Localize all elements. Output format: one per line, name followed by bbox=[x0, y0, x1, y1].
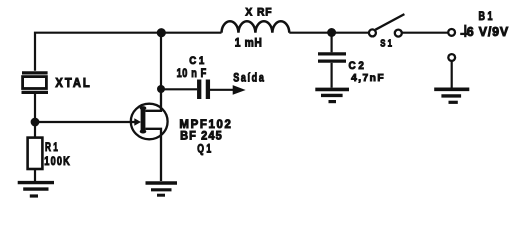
battery plus sign bbox=[460, 25, 469, 38]
wire drain feed from top wire down to C1 junction bbox=[160, 33, 162, 89]
ground below Q1 bbox=[146, 183, 178, 195]
label B1 bbox=[479, 11, 493, 23]
svg-text:10 n F: 10 n F bbox=[177, 66, 207, 80]
svg-text:C 2: C 2 bbox=[349, 60, 364, 72]
svg-text:6 V/9V: 6 V/9V bbox=[467, 25, 509, 39]
wire gate node to Q1 gate bbox=[35, 121, 131, 123]
wire switch to battery bbox=[402, 32, 447, 34]
label X RF bbox=[245, 6, 272, 18]
wire inductor to switch bbox=[289, 32, 369, 34]
svg-text:100K: 100K bbox=[44, 154, 71, 168]
wire crystal bottom to gate node bbox=[34, 94, 36, 122]
svg-text:XTAL: XTAL bbox=[55, 76, 91, 90]
capacitor C2 bbox=[318, 33, 346, 88]
crystal XTAL bbox=[22, 73, 49, 93]
label C1 bbox=[189, 55, 204, 67]
wire battery negative to ground bbox=[451, 62, 453, 88]
label R1 bbox=[45, 141, 58, 154]
svg-text:X RF: X RF bbox=[245, 6, 272, 18]
svg-text:Saída: Saída bbox=[233, 71, 265, 85]
transistor Q1 (JFET) bbox=[130, 90, 168, 182]
ground below R1 bbox=[18, 183, 54, 196]
inductor XRF bbox=[222, 21, 290, 32]
label 10nF bbox=[177, 66, 207, 80]
svg-text:BF 245: BF 245 bbox=[180, 129, 223, 143]
svg-text:Q 1: Q 1 bbox=[197, 144, 211, 156]
svg-text:R 1: R 1 bbox=[45, 141, 58, 154]
label 4,7nF bbox=[351, 72, 385, 84]
label Q1 bbox=[197, 144, 211, 156]
label S1 bbox=[380, 37, 392, 49]
node gate junction bbox=[31, 118, 40, 127]
battery B1 positive terminal bbox=[448, 29, 455, 36]
battery B1 negative terminal bbox=[448, 54, 455, 61]
output arrow wire bbox=[210, 89, 234, 91]
output arrowhead bbox=[233, 86, 244, 94]
svg-text:4,7nF: 4,7nF bbox=[351, 72, 385, 84]
label C2 bbox=[349, 60, 364, 72]
svg-text:1 mH: 1 mH bbox=[235, 36, 263, 50]
node C1 junction on drain branch bbox=[157, 85, 165, 93]
ground below battery bbox=[434, 89, 469, 102]
wire top-left L from crystal up and across to inductor bbox=[35, 33, 222, 71]
node C2 junction bbox=[327, 28, 336, 37]
resistor R1 bbox=[28, 122, 43, 181]
svg-text:B 1: B 1 bbox=[479, 11, 493, 23]
label BF245 bbox=[180, 129, 223, 143]
label 1mH bbox=[235, 36, 263, 50]
node top junction above Q1 drain bbox=[157, 28, 166, 37]
label 6V/9V bbox=[467, 25, 509, 39]
label Saida bbox=[233, 71, 265, 85]
label MPF102 bbox=[179, 117, 232, 131]
svg-text:S 1: S 1 bbox=[380, 37, 392, 49]
label 100K bbox=[44, 154, 71, 168]
label XTAL bbox=[55, 76, 91, 90]
ground below C2 bbox=[315, 89, 349, 101]
capacitor C1 bbox=[161, 80, 208, 100]
switch S1 bbox=[369, 14, 405, 36]
